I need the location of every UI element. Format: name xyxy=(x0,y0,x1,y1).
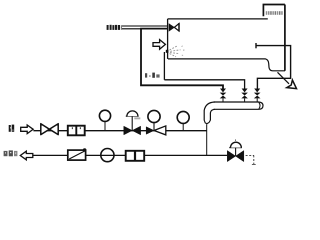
wire left riser xyxy=(167,19,169,59)
meter row1 water meter xyxy=(68,126,85,136)
meter row2 xyxy=(126,151,145,161)
label hot water xyxy=(9,125,15,132)
manifold pipe bottom cap xyxy=(204,120,210,124)
label tank text xyxy=(266,11,283,15)
valve V2 drop arrowhead xyxy=(242,89,248,93)
label condensate text xyxy=(4,150,18,156)
valve gate row1 open bowtie xyxy=(41,124,50,135)
manifold pipe cap line xyxy=(259,102,260,109)
dashed signal line xyxy=(246,154,254,156)
strainer row2 xyxy=(68,150,86,160)
gauge G1 row1 xyxy=(104,121,106,131)
valve V1 drop arrowhead xyxy=(220,89,226,93)
valve V3 drop arrowhead xyxy=(254,89,260,93)
wire row1 main line xyxy=(33,130,206,132)
label motor 4.5kw xyxy=(145,73,160,78)
control valve CV1 dome xyxy=(126,115,139,117)
label steam-inlet text xyxy=(107,25,122,30)
drain diagonal arrow xyxy=(278,72,290,84)
wire down pipe thin xyxy=(206,124,208,155)
block arrow hot-water right xyxy=(21,125,34,134)
wire top header line xyxy=(168,18,268,20)
label tiny tag right of CV1 stem xyxy=(134,117,140,119)
tank hot-water top right xyxy=(263,5,285,71)
block arrow water-in xyxy=(153,40,165,50)
check valve top inlet xyxy=(169,24,174,31)
manifold pipe body xyxy=(214,102,264,109)
pipe A steam with end cap xyxy=(255,43,257,48)
valve V1 bowtie xyxy=(220,93,227,99)
pump circle row2 xyxy=(101,149,114,162)
wire steam inlet double pipe xyxy=(122,26,168,29)
spray nozzle xyxy=(166,50,169,53)
block arrow condensate left xyxy=(20,151,33,160)
machine outer box xyxy=(141,29,223,89)
wire chamber bottom to valve2 xyxy=(164,80,244,89)
valve V3 bowtie xyxy=(254,93,261,99)
gauge G2 row1 xyxy=(182,123,184,130)
chamber top line with curve to tank xyxy=(168,59,285,71)
wire inner left drop xyxy=(163,52,165,80)
spray jets xyxy=(170,46,181,57)
valve V2 bowtie xyxy=(241,93,248,99)
manifold elbow xyxy=(204,102,215,120)
valve BV circle-handle xyxy=(148,110,160,122)
control valve CV2 dome xyxy=(229,147,242,149)
wire row2 main line xyxy=(33,154,227,156)
